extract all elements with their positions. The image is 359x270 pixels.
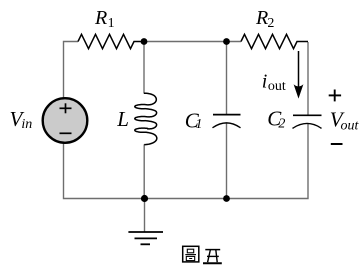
svg-text:out: out (341, 118, 359, 133)
svg-text:2: 2 (278, 116, 285, 131)
svg-text:2: 2 (267, 16, 274, 31)
svg-text:L: L (116, 107, 129, 131)
svg-text:i: i (262, 71, 268, 93)
svg-text:out: out (268, 79, 286, 94)
svg-text:R: R (255, 7, 268, 29)
svg-text:in: in (21, 117, 32, 132)
svg-text:1: 1 (108, 16, 115, 31)
svg-text:R: R (94, 7, 107, 29)
svg-text:1: 1 (195, 117, 202, 132)
